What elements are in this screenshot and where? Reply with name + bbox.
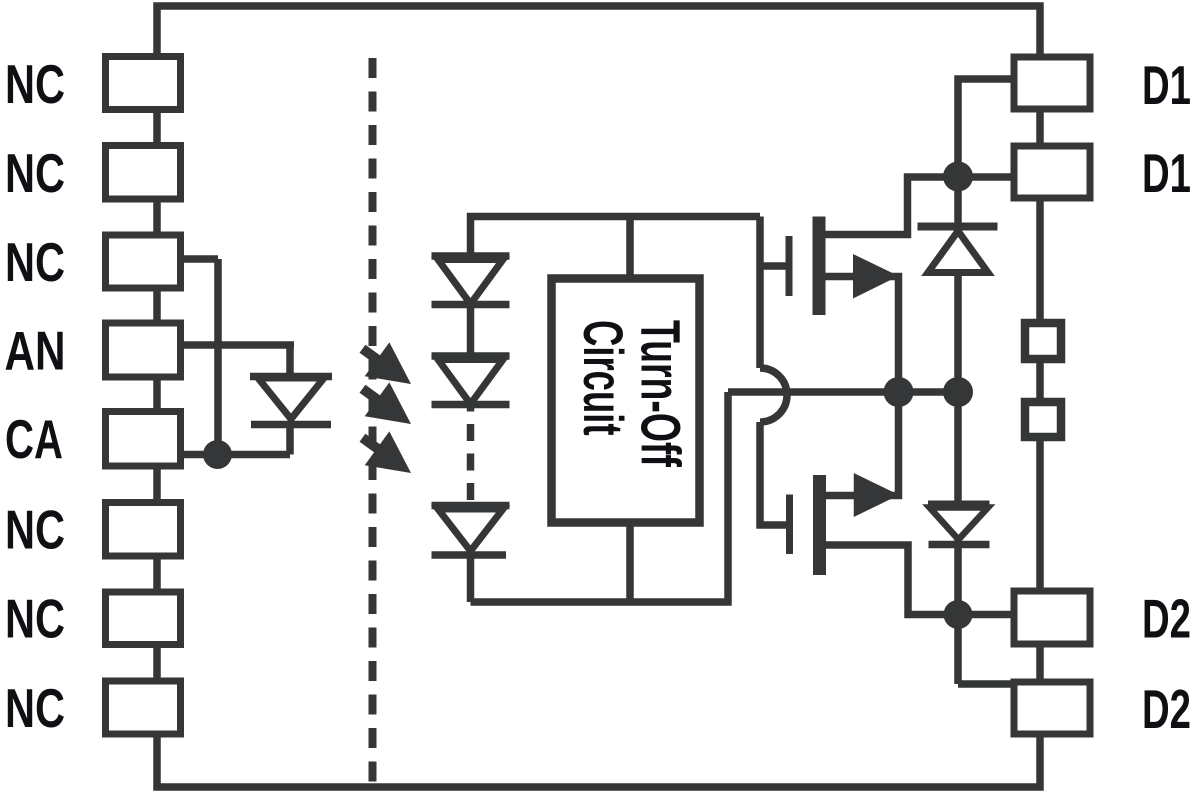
svg-text:NC: NC: [5, 142, 65, 204]
svg-text:NC: NC: [5, 53, 65, 115]
svg-text:Circuit: Circuit: [572, 320, 634, 436]
svg-text:Turn-Off: Turn-Off: [630, 320, 692, 467]
svg-text:NC: NC: [5, 677, 65, 739]
svg-text:NC: NC: [5, 499, 65, 561]
svg-text:NC: NC: [5, 588, 65, 650]
svg-text:AN: AN: [5, 320, 66, 382]
svg-text:NC: NC: [5, 231, 65, 293]
svg-text:D1: D1: [1142, 142, 1191, 204]
svg-text:D2: D2: [1142, 588, 1191, 650]
svg-text:D1: D1: [1142, 54, 1191, 116]
svg-text:CA: CA: [5, 408, 63, 470]
svg-text:D2: D2: [1142, 678, 1191, 740]
